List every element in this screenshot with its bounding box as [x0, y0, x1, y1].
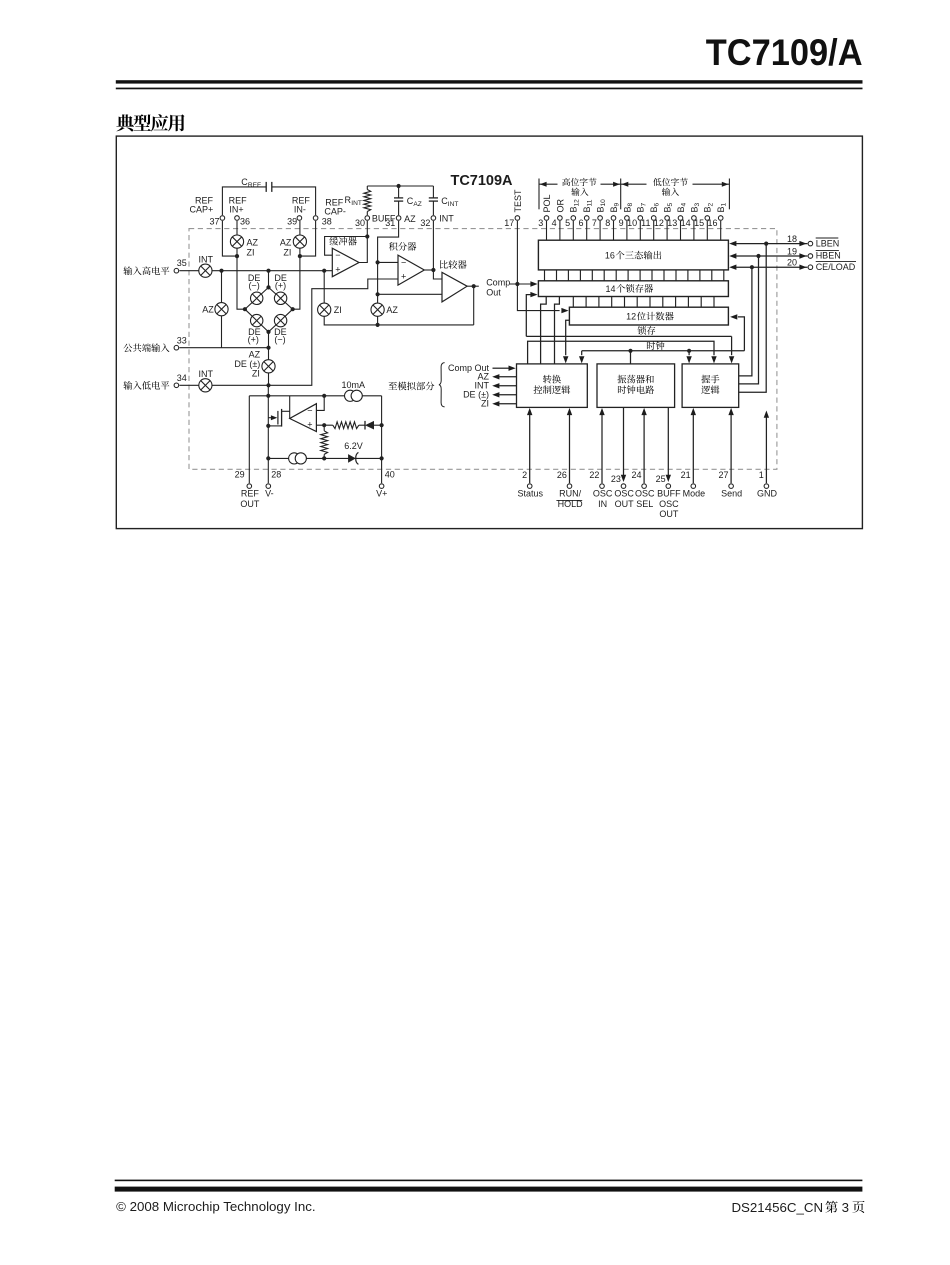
pin 28 V-: [266, 484, 271, 489]
wire input-low tap to ref rail: [267, 385, 269, 396]
svg-text:38: 38: [322, 216, 332, 226]
svg-text:13: 13: [667, 218, 677, 228]
svg-text:B11: B11: [582, 199, 594, 212]
svg-text:CAP-: CAP-: [324, 207, 346, 217]
svg-text:Status: Status: [518, 489, 544, 499]
svg-text:3: 3: [842, 1200, 849, 1215]
svg-text:9: 9: [619, 218, 624, 228]
svg-text:29: 29: [235, 469, 245, 479]
svg-text:B3: B3: [689, 202, 701, 212]
switch DE(-) bottom-right: [274, 314, 286, 326]
wire pin 6 lead: [586, 221, 588, 240]
wire buffer output to pin 30: [359, 221, 367, 263]
box 12-bit counter: [569, 307, 728, 325]
wire pin 14 lead: [693, 221, 695, 240]
svg-text:23: 23: [611, 474, 621, 484]
wire pin 11 lead: [653, 221, 655, 240]
transistor MOSFET: [268, 417, 271, 419]
svg-text:AZ: AZ: [247, 238, 259, 248]
pin 26 RUN/HOLD: [567, 484, 572, 489]
wire clock to counter: [738, 317, 745, 351]
pin 20 CE/LOAD: [736, 266, 807, 268]
svg-text:DE (±): DE (±): [234, 359, 260, 369]
current source (bias): [289, 453, 307, 464]
svg-text:AZ: AZ: [404, 214, 416, 224]
comparator label 比较器: [440, 260, 467, 269]
footer rules: [115, 1180, 863, 1182]
svg-text:INT: INT: [198, 369, 213, 379]
svg-text:32: 32: [420, 218, 430, 228]
pin 32 INT: [431, 216, 436, 221]
dimension arrows low byte: [621, 183, 647, 185]
wire pin38 bracket to node below right switch: [300, 221, 316, 256]
box 14 latches: [538, 281, 728, 297]
svg-text:12: 12: [654, 218, 664, 228]
svg-text:OSC: OSC: [635, 489, 655, 499]
pin 18 LBEN: [736, 243, 807, 245]
wire ref op-amp minus to rail: [316, 396, 324, 411]
svg-text:(+): (+): [248, 335, 259, 345]
svg-text:OSC: OSC: [659, 499, 679, 509]
op-amp buffer: [332, 248, 359, 277]
wire comparator plus input: [378, 293, 442, 295]
label 至模拟部分: [388, 382, 434, 391]
svg-text:15: 15: [694, 218, 704, 228]
pin 21 Mode: [691, 484, 696, 489]
svg-text:REF: REF: [241, 489, 260, 499]
svg-text:B1: B1: [716, 202, 728, 212]
wire pin 3 lead: [546, 221, 548, 240]
svg-text:17: 17: [504, 218, 514, 228]
svg-text:OSC: OSC: [593, 489, 613, 499]
pin 33 common input: [123, 343, 169, 352]
switch DE(+) bottom-left: [251, 314, 263, 326]
pin 23 OSC OUT: [621, 484, 626, 489]
svg-text:Send: Send: [721, 489, 742, 499]
svg-text:IN+: IN+: [229, 205, 243, 215]
svg-text:1: 1: [759, 470, 764, 480]
wire ref top rail: [249, 395, 381, 397]
svg-text:TC7109A: TC7109A: [450, 173, 513, 189]
svg-text:IN-: IN-: [294, 205, 306, 215]
svg-text:B9: B9: [609, 202, 621, 212]
pin 29 REF OUT: [247, 484, 252, 489]
svg-text:−: −: [307, 406, 312, 416]
wire pin 13 lead: [680, 221, 682, 240]
wire right rail V+: [381, 396, 383, 483]
wire ref op-amp plus: [316, 424, 332, 426]
DE bridge diamond: [245, 287, 293, 332]
wire pin 5 lead: [572, 221, 574, 240]
wire HBEN drop to handshake: [739, 256, 759, 384]
figure border: [116, 136, 862, 528]
heading 典型应用: [116, 114, 184, 131]
label 低位字节输入: [653, 178, 688, 186]
wire buffer feedback loop: [325, 237, 368, 256]
svg-text:Mode: Mode: [683, 489, 706, 499]
svg-text:+: +: [307, 419, 312, 429]
svg-text:+: +: [335, 264, 340, 274]
svg-text:16: 16: [707, 218, 717, 228]
svg-text:+: +: [401, 271, 406, 281]
wire pin 10 lead: [639, 221, 641, 240]
svg-text:B10: B10: [596, 199, 608, 213]
svg-text:6: 6: [578, 218, 583, 228]
wire comparator output: [467, 285, 479, 287]
svg-text:Comp: Comp: [486, 277, 510, 287]
svg-text:25: 25: [656, 474, 666, 484]
svg-text:POL: POL: [542, 194, 552, 212]
svg-text:33: 33: [177, 335, 187, 345]
op-amp reference: [290, 404, 317, 432]
wire pin 7 lead: [599, 221, 601, 240]
svg-text:DS21456C_CN: DS21456C_CN: [731, 1200, 823, 1215]
svg-text:18: 18: [787, 234, 797, 244]
svg-text:16: 16: [605, 251, 615, 261]
wire right chain down to bridge right vertex: [293, 248, 300, 309]
svg-text:(−): (−): [248, 281, 259, 291]
switch AZ/ZI (right): [293, 235, 306, 248]
high byte / low byte dimension bars: [538, 179, 540, 210]
resistor (vertical): [323, 425, 325, 431]
svg-text:19: 19: [787, 246, 797, 256]
svg-text:35: 35: [177, 258, 187, 268]
svg-text:SEL: SEL: [636, 499, 653, 509]
box oscillator and clock 振荡器和时钟电路: [597, 364, 675, 408]
wire left chain down to bridge left vertex: [237, 248, 245, 309]
svg-text:AZ: AZ: [413, 201, 421, 208]
svg-text:BUFF: BUFF: [657, 489, 681, 499]
svg-text:37: 37: [209, 216, 219, 226]
svg-text:ZI: ZI: [252, 368, 260, 378]
svg-text:(−): (−): [274, 335, 285, 345]
wire main row to bridge top vertex: [268, 271, 270, 288]
svg-text:INT: INT: [351, 200, 362, 207]
svg-text:AZ: AZ: [386, 305, 398, 315]
svg-text:ZI: ZI: [247, 248, 255, 258]
pin 25 BUFF OSC OUT: [666, 484, 671, 489]
svg-text:OUT: OUT: [659, 509, 679, 519]
svg-text:TC7109/A: TC7109/A: [706, 31, 863, 73]
svg-text:20: 20: [787, 258, 797, 268]
pin 31 AZ: [396, 216, 401, 221]
wire comparator feedback drop: [473, 286, 475, 325]
wire pin39 to AZ/ZI switch: [299, 221, 301, 235]
svg-text:8: 8: [605, 218, 610, 228]
svg-text:LBEN: LBEN: [816, 238, 840, 248]
svg-text:INT: INT: [198, 254, 213, 264]
svg-text:REF: REF: [248, 182, 261, 189]
box 16 tri-state outputs: [538, 240, 728, 270]
svg-text:V+: V+: [376, 489, 387, 499]
wire latch enable (锁存): [526, 295, 531, 337]
pin 24 OSC SEL: [642, 484, 647, 489]
wire pin32/CINT down to comparator minus: [432, 221, 434, 270]
svg-text:10mA: 10mA: [342, 380, 366, 390]
wire top rail RINT-CAZ-CINT: [367, 185, 433, 187]
wire pin35 to INT switch: [179, 270, 198, 272]
wire ZI to lower rail: [324, 316, 474, 325]
switch DE(+) top-right: [274, 292, 286, 304]
wire TEST down to counter: [517, 221, 559, 311]
svg-text:OUT: OUT: [240, 499, 260, 509]
svg-text:(+): (+): [275, 281, 286, 291]
svg-text:AZ: AZ: [202, 305, 214, 315]
svg-text:27: 27: [718, 470, 728, 480]
wire CE/LOAD drop to handshake: [739, 267, 752, 376]
pin 39 REF IN-: [297, 216, 302, 221]
svg-text:2: 2: [522, 470, 527, 480]
svg-text:B8: B8: [622, 202, 634, 212]
wire switch to input low row: [268, 373, 270, 385]
bus ticks latches to counter: [572, 297, 574, 308]
pin 35 input high: [123, 266, 169, 275]
svg-text:RUN/: RUN/: [559, 489, 581, 499]
svg-text:IN: IN: [598, 499, 607, 509]
capacitor CREF: [222, 187, 266, 215]
svg-text:HBEN: HBEN: [816, 251, 841, 261]
svg-text:3: 3: [538, 218, 543, 228]
box handshake logic 握手逻辑: [682, 364, 739, 408]
resistor (horizontal): [333, 422, 359, 429]
wire pin31 to integrator minus: [378, 221, 399, 262]
wire drain riser: [289, 396, 291, 419]
wire pin 15 lead: [706, 221, 708, 240]
capacitor CINT: [432, 186, 434, 198]
svg-text:B7: B7: [636, 202, 648, 212]
svg-text:14: 14: [681, 218, 691, 228]
svg-text:26: 26: [557, 470, 567, 480]
pin 22 OSC IN: [600, 484, 605, 489]
svg-text:OUT: OUT: [615, 499, 635, 509]
svg-text:© 2008 Microchip Technology In: © 2008 Microchip Technology Inc.: [116, 1199, 316, 1214]
svg-text:ZI: ZI: [283, 248, 291, 258]
svg-text:V-: V-: [265, 489, 274, 499]
svg-text:39: 39: [287, 216, 297, 226]
svg-text:40: 40: [385, 469, 395, 479]
svg-text:OR: OR: [555, 198, 565, 212]
wire pin 16 lead: [720, 221, 722, 240]
wire integrator minus input: [378, 261, 398, 263]
svg-text:6.2V: 6.2V: [344, 441, 363, 451]
svg-text:21: 21: [681, 470, 691, 480]
wire common row: [179, 347, 268, 349]
dashed chip boundary: [189, 229, 777, 470]
pin 27 Send: [729, 484, 734, 489]
svg-text:B6: B6: [649, 202, 661, 212]
svg-text:B2: B2: [703, 202, 715, 212]
pin 38 REF CAP-: [313, 216, 318, 221]
wire pin 12 lead: [666, 221, 668, 240]
header double rule: [116, 80, 863, 83]
wire pin 9 lead: [626, 221, 628, 240]
switch AZ (integrator): [377, 262, 379, 303]
wire pin 8 lead: [613, 221, 615, 240]
op-amp comparator: [442, 272, 467, 302]
svg-text:ZI: ZI: [481, 398, 489, 408]
svg-text:GND: GND: [757, 489, 778, 499]
svg-text:4: 4: [552, 218, 557, 228]
pin 36 REF IN+: [235, 216, 240, 221]
svg-text:11: 11: [641, 218, 650, 228]
pin 2 Status: [527, 484, 532, 489]
pin 30 BUFF: [365, 216, 370, 221]
svg-text:10: 10: [627, 218, 637, 228]
svg-text:30: 30: [355, 218, 365, 228]
wire comp out to latch arrow: [510, 283, 532, 285]
wire latch jog 1 to control logic: [541, 297, 547, 364]
svg-text:7: 7: [592, 218, 597, 228]
switch DE(-) top-left: [251, 292, 263, 304]
svg-text:CE/LOAD: CE/LOAD: [816, 262, 856, 272]
switch AZ (input): [221, 271, 223, 303]
wire pin36 to AZ/ZI switch: [236, 221, 238, 235]
svg-text:12: 12: [626, 312, 636, 322]
svg-text:34: 34: [177, 373, 187, 383]
label 高位字节输入: [562, 178, 596, 186]
svg-text:OSC: OSC: [614, 489, 634, 499]
svg-text:22: 22: [589, 470, 599, 480]
buffer label 缓冲器: [329, 237, 356, 246]
wire AZ switch to common row: [221, 316, 223, 348]
wire clock (时钟): [647, 341, 665, 350]
wire pin37 bracket to node below switch: [222, 221, 237, 256]
wire integrator output to CINT line: [424, 269, 433, 271]
wire left rail V-: [267, 396, 269, 483]
svg-text:36: 36: [240, 216, 250, 226]
diode: [359, 424, 365, 426]
svg-text:31: 31: [385, 218, 395, 228]
svg-text:AZ: AZ: [280, 238, 292, 248]
svg-text:B12: B12: [569, 199, 581, 213]
svg-text:B5: B5: [663, 202, 675, 212]
integrator label 积分器: [389, 242, 416, 251]
resistor RINT: [366, 186, 368, 190]
wire pin 4 lead: [559, 221, 561, 240]
wire pin34 to INT switch: [179, 384, 198, 386]
pin 37 REF CAP+: [220, 216, 225, 221]
svg-text:−: −: [335, 250, 340, 260]
svg-text:B4: B4: [676, 202, 688, 212]
wire ref bottom rail: [268, 457, 381, 459]
wire input low row to integrator + input: [212, 279, 398, 385]
pin 34 input low: [123, 381, 169, 390]
svg-text:14: 14: [606, 284, 616, 294]
wire main input row: [212, 270, 332, 272]
wire control-to-handshake: [528, 341, 714, 364]
svg-text:ZI: ZI: [334, 305, 342, 315]
capacitor CAZ: [398, 186, 400, 198]
wire bridge bottom to AZ DE ZI switch: [268, 332, 270, 360]
svg-text:28: 28: [271, 469, 281, 479]
svg-text:−: −: [401, 257, 406, 267]
box conversion control logic 转换控制逻辑: [517, 364, 588, 408]
dimension arrows high byte: [539, 183, 558, 185]
pin 40 V+: [379, 484, 384, 489]
wire LBEN drop to handshake: [739, 244, 767, 393]
wire REF OUT riser: [248, 396, 250, 483]
switch ZI (buffer input): [323, 271, 325, 303]
svg-text:24: 24: [631, 470, 641, 480]
wire latch jog 2 to control logic: [555, 297, 560, 364]
svg-text:TEST: TEST: [513, 189, 523, 213]
switch AZ/ZI (left): [230, 235, 243, 248]
wire counter to control logic: [566, 320, 570, 355]
svg-text:INT: INT: [448, 201, 459, 208]
pin 1 GND: [764, 484, 769, 489]
svg-text:CAP+: CAP+: [190, 205, 214, 215]
svg-text:AZ: AZ: [249, 349, 261, 359]
brace: [439, 363, 445, 407]
op-amp integrator: [398, 255, 424, 285]
svg-text:Out: Out: [486, 287, 501, 297]
svg-text:INT: INT: [439, 214, 454, 224]
bus ticks outputs to latches: [544, 270, 546, 281]
svg-text:5: 5: [565, 218, 570, 228]
pin 19 HBEN: [736, 255, 807, 257]
